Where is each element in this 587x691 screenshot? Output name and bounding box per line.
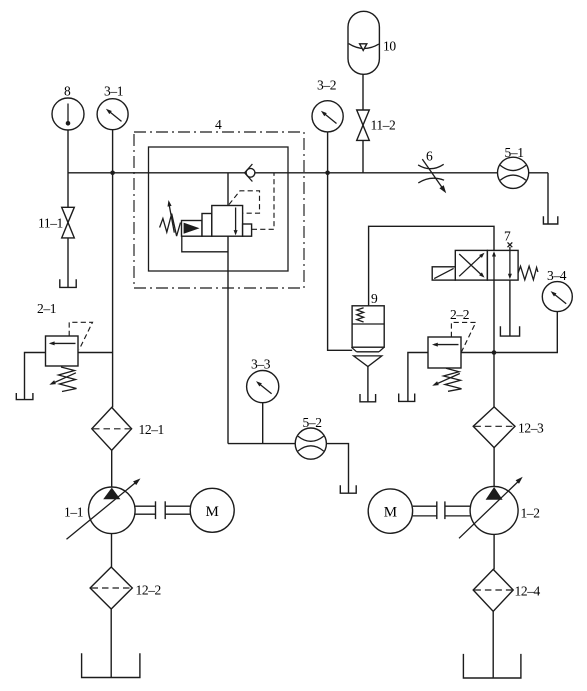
filter 12-2 <box>90 567 132 609</box>
node junction right <box>492 350 497 355</box>
plugged port x symbol <box>508 242 513 250</box>
wire pump 1-1 to 12-2 <box>111 534 113 567</box>
svg-text:8: 8 <box>64 84 71 99</box>
gauge 3-3 <box>247 371 279 403</box>
wire 3-2 branch to component 9 <box>328 173 353 350</box>
svg-text:M: M <box>384 505 397 521</box>
filter 12-1 <box>92 407 132 450</box>
svg-text:11–2: 11–2 <box>371 118 396 133</box>
svg-text:9: 9 <box>371 291 378 306</box>
tank below 11-1 <box>60 279 76 287</box>
wire 12-1 to pump 1-1 <box>111 450 113 487</box>
node junction 3-1 <box>110 171 115 176</box>
svg-text:1–2: 1–2 <box>521 506 540 521</box>
wire valve 7 A-port down <box>493 280 495 352</box>
tank below 2-1 <box>16 393 33 400</box>
wire pump 1-2 to 12-4 <box>493 534 495 569</box>
tank below 2-2 <box>399 394 415 402</box>
wire 12-3 to pump 1-2 <box>493 448 495 487</box>
wire accumulator to 11-2 <box>362 74 364 110</box>
tank below valve 7 <box>500 326 519 336</box>
wire 5-2 to tank <box>326 444 348 494</box>
wire 2-1 drain <box>25 353 46 400</box>
wire gauge 3-1 stem <box>112 130 114 173</box>
shaft coupling motor to pump 1-2 <box>413 501 471 519</box>
shut-off valve 11-1 <box>62 207 75 238</box>
wire gauge 3-3 stem <box>262 402 264 443</box>
check valve in box 4 <box>245 164 255 182</box>
relief valve 2-1 <box>46 322 93 391</box>
motor M left <box>190 488 234 532</box>
wire box 4 inlet port <box>227 173 229 206</box>
wire gauge 8 stem and 11-1 branch upper <box>67 130 69 207</box>
enclosure box 4 outer dash-dot <box>134 132 304 288</box>
wire gauge 3-2 stem <box>327 132 329 173</box>
svg-text:5–1: 5–1 <box>505 145 524 160</box>
wire right column to 12-3 <box>493 353 495 408</box>
shut-off valve 11-2 <box>357 110 370 140</box>
gauge 3-2 <box>312 101 343 132</box>
pilot line dashed to main line <box>252 174 274 230</box>
tank below 5-2 <box>340 485 356 493</box>
wire junction to 2-2 <box>461 352 494 354</box>
svg-text:5–2: 5–2 <box>303 415 322 430</box>
svg-text:2–1: 2–1 <box>37 301 56 316</box>
tank left main <box>82 653 140 677</box>
svg-text:7: 7 <box>504 229 511 244</box>
wire main supply line <box>68 172 548 174</box>
wire left branch vertical <box>112 173 114 408</box>
directional valve 7 <box>455 250 518 280</box>
wire 2-1 outlet <box>78 352 113 354</box>
pump 1-1 <box>67 478 141 539</box>
solenoid box of valve 7 <box>432 267 455 280</box>
wire 12-4 to tank <box>492 611 494 678</box>
wire 5-1 to tank <box>547 173 549 224</box>
filter 12-3 <box>473 407 515 448</box>
gauge 3-4 <box>542 282 572 312</box>
svg-text:10: 10 <box>383 39 396 54</box>
tank right main <box>463 654 521 678</box>
wire box 4 outlet down <box>227 236 229 443</box>
svg-text:3–1: 3–1 <box>104 84 123 99</box>
filter 12-4 <box>473 569 513 611</box>
enclosure box 4 inner <box>149 147 289 271</box>
pump 1-2 <box>459 477 523 539</box>
flow meter 5-1 <box>497 157 528 188</box>
node junction 3-2 <box>325 171 330 176</box>
wire to flow meter 5-2 <box>228 443 296 445</box>
tank below 9 <box>360 394 376 402</box>
svg-text:M: M <box>206 504 219 520</box>
wire 2-2 drain <box>408 353 428 402</box>
svg-text:4: 4 <box>215 117 222 132</box>
wire junction to gauge 3-4 <box>494 312 557 353</box>
flow meter 5-2 <box>295 428 326 459</box>
wire 11-1 to tank <box>67 238 69 288</box>
wire valve 7 T-port to tank <box>509 280 511 336</box>
shaft coupling pump 1-1 to motor <box>135 501 190 519</box>
svg-text:3–3: 3–3 <box>251 357 271 372</box>
svg-text:12–3: 12–3 <box>518 421 544 436</box>
wire valve 9 to tank <box>367 367 369 402</box>
svg-text:6: 6 <box>426 149 433 164</box>
motor M right <box>368 489 412 533</box>
pilot line dashed loop valve top <box>229 191 260 213</box>
wire component 9 to valve 7 top <box>369 226 494 305</box>
svg-text:3–2: 3–2 <box>317 78 336 93</box>
svg-text:12–1: 12–1 <box>139 422 164 437</box>
tank below 5-1 <box>543 216 557 224</box>
pressure reducing valve in box 4 <box>160 200 252 252</box>
wire 12-2 to tank <box>110 609 112 678</box>
svg-text:3–4: 3–4 <box>547 268 567 283</box>
svg-text:11–1: 11–1 <box>38 216 63 231</box>
svg-text:12–4: 12–4 <box>515 584 541 599</box>
svg-text:1–1: 1–1 <box>64 505 83 520</box>
svg-text:2–2: 2–2 <box>450 307 469 322</box>
svg-text:12–2: 12–2 <box>136 583 161 598</box>
gauge 8 <box>52 98 84 130</box>
relief valve 2-2 <box>428 322 476 391</box>
back-pressure valve 9 <box>351 306 384 367</box>
gauge 3-1 <box>97 99 128 130</box>
accumulator 10 <box>348 11 379 74</box>
spring of valve 7 <box>518 266 538 280</box>
wire 11-2 to main line <box>362 140 364 172</box>
throttle valve 6 <box>418 159 446 193</box>
